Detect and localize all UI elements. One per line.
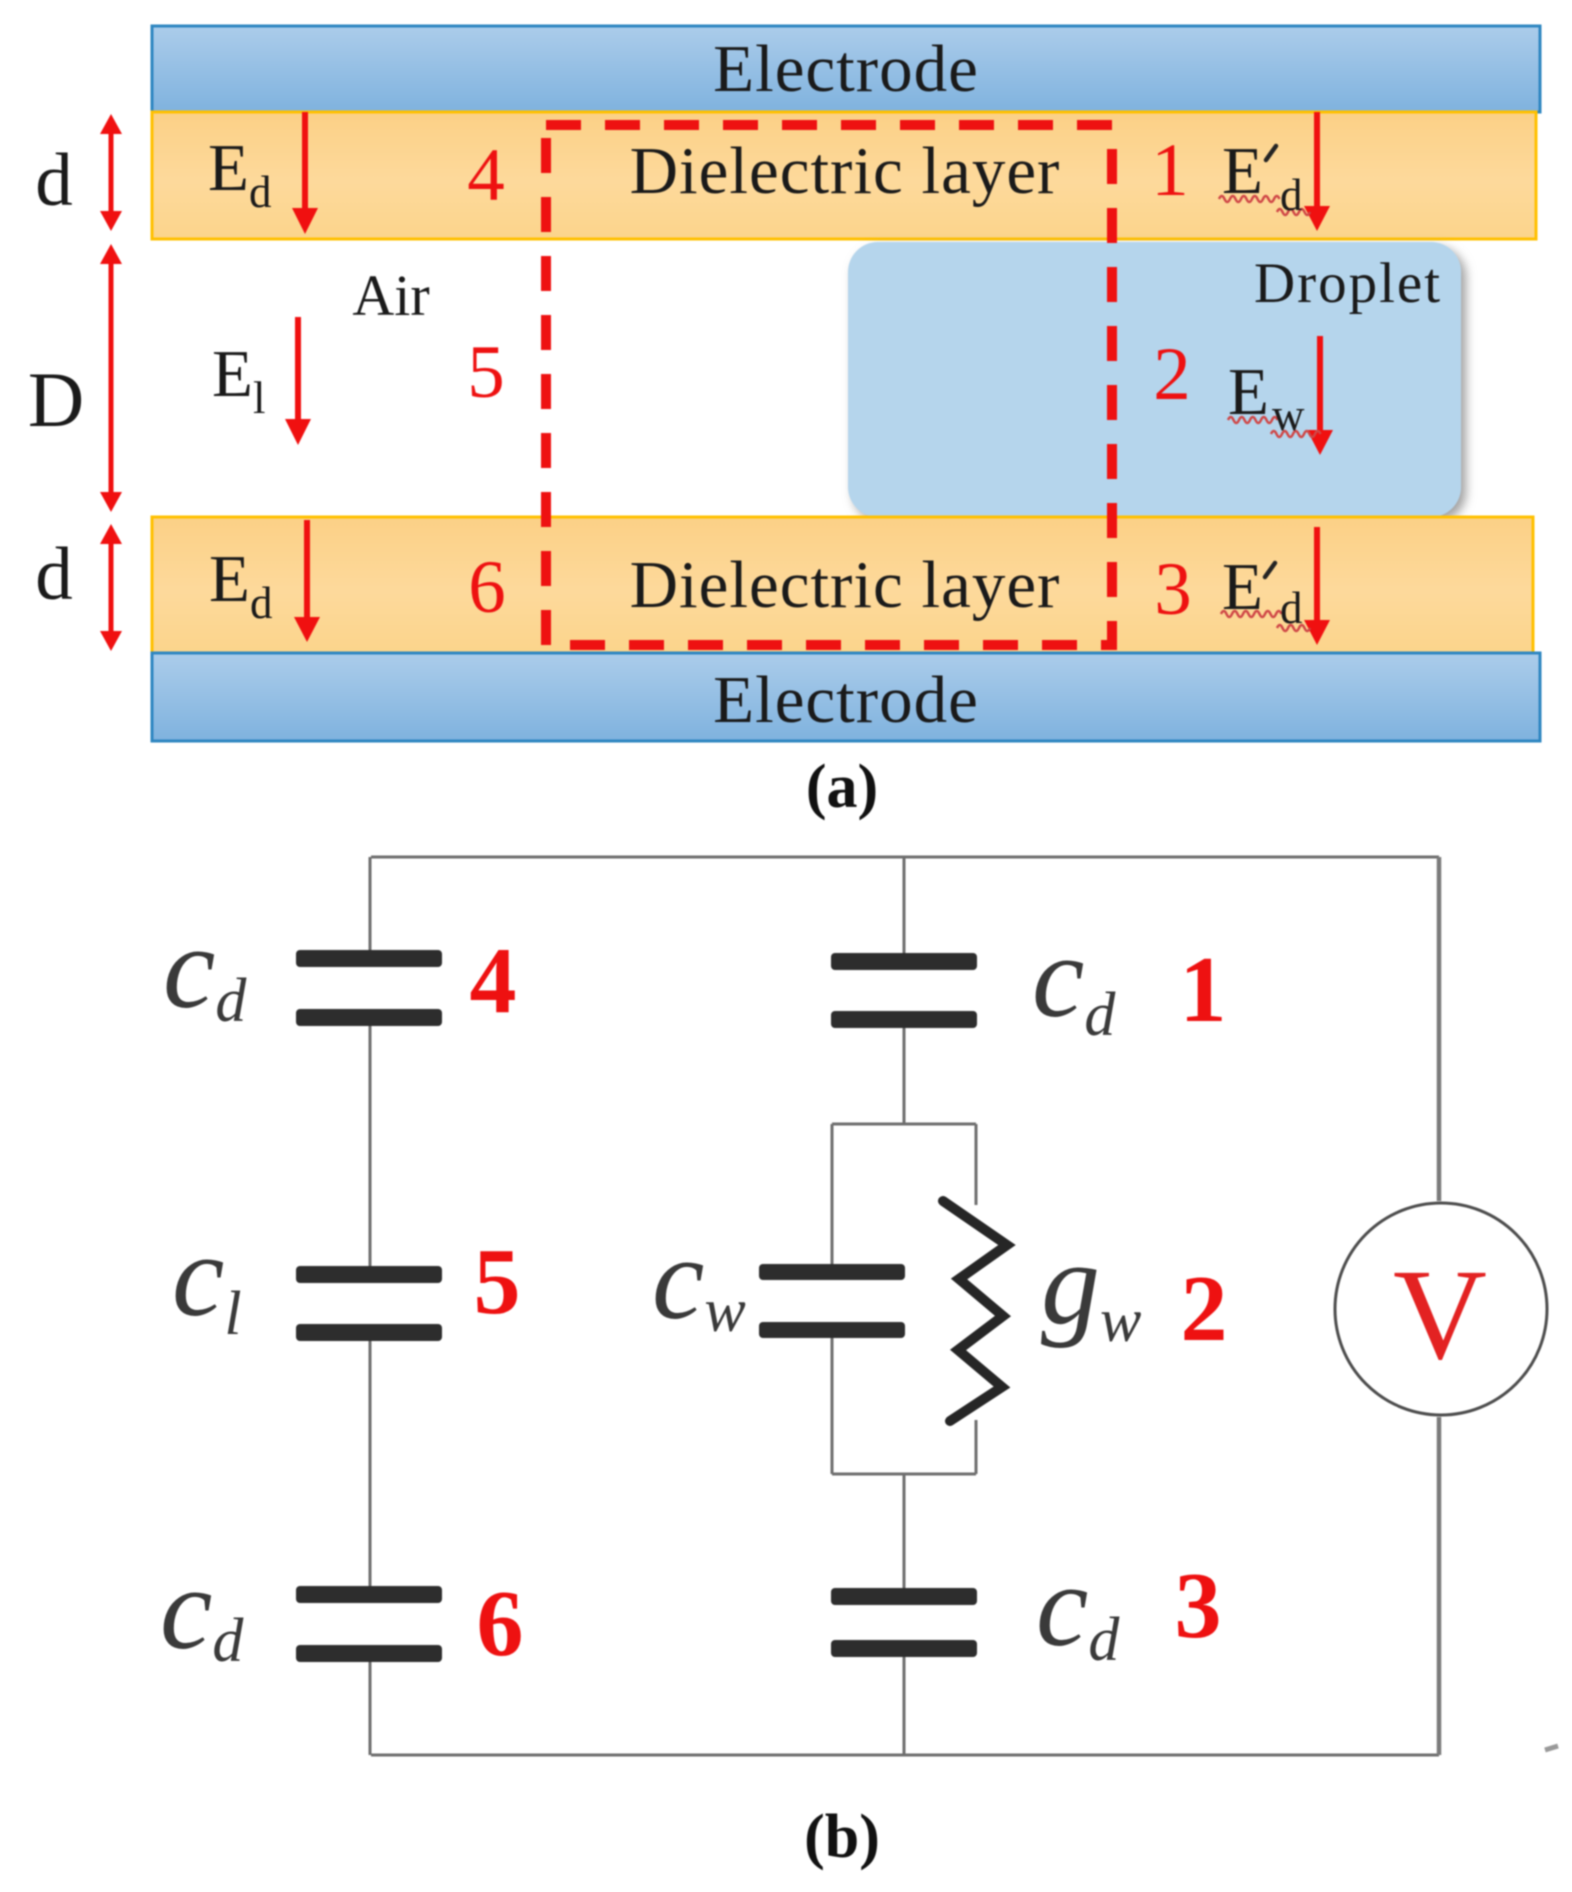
svg-text:Droplet: Droplet	[1254, 252, 1442, 315]
svg-text:(b): (b)	[804, 1803, 880, 1871]
svg-text:cd: cd	[163, 902, 247, 1035]
svg-text:3: 3	[1175, 1554, 1222, 1658]
svg-text:E: E	[1222, 550, 1263, 624]
svg-text:3: 3	[1154, 548, 1192, 631]
svg-text:cd: cd	[1032, 911, 1116, 1049]
svg-text:Air: Air	[352, 263, 429, 328]
svg-text:Dielectric layer: Dielectric layer	[630, 548, 1061, 622]
svg-text:1: 1	[1151, 129, 1189, 212]
svg-text:gw: gw	[1041, 1218, 1141, 1355]
svg-text:1: 1	[1180, 938, 1227, 1042]
svg-text:E: E	[1222, 134, 1263, 208]
svg-text:2: 2	[1153, 333, 1191, 416]
svg-text:w: w	[1272, 390, 1305, 440]
svg-text:El: El	[212, 337, 265, 423]
svg-text:cl: cl	[172, 1210, 242, 1348]
svg-text:E: E	[1228, 355, 1269, 429]
svg-text:4: 4	[467, 134, 505, 217]
svg-text:cd: cd	[160, 1543, 244, 1675]
svg-text:V: V	[1393, 1243, 1487, 1387]
svg-text:4: 4	[470, 929, 517, 1033]
svg-text:cd: cd	[1036, 1540, 1120, 1674]
svg-text:d: d	[35, 139, 73, 222]
svg-text:d: d	[1280, 170, 1303, 220]
svg-text:6: 6	[477, 1572, 524, 1676]
svg-text:D: D	[28, 356, 84, 443]
svg-text:cw: cw	[652, 1213, 746, 1345]
svg-text:2: 2	[1181, 1257, 1228, 1361]
svg-text:d: d	[1280, 583, 1303, 633]
svg-text:5: 5	[474, 1230, 521, 1334]
svg-text:5: 5	[467, 331, 505, 414]
svg-text:(a): (a)	[806, 753, 878, 821]
svg-text:6: 6	[468, 546, 506, 629]
svg-text:d: d	[35, 533, 73, 616]
svg-text:Electrode: Electrode	[713, 663, 979, 737]
svg-text:Electrode: Electrode	[713, 32, 979, 106]
svg-text:Dielectric layer: Dielectric layer	[630, 134, 1061, 208]
